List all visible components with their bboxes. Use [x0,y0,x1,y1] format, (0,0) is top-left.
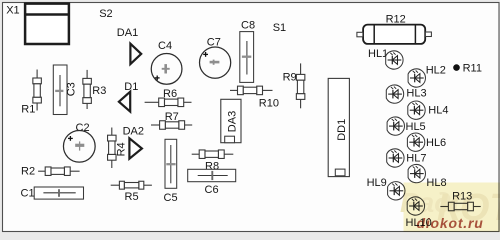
label DD1 [336,119,348,141]
resistor R9 [296,63,305,108]
svg-text:DD1: DD1 [336,119,348,141]
label C3 [65,82,77,96]
label R4 [116,142,128,156]
capacitor C8 [240,32,254,83]
svg-text:C4: C4 [158,40,172,52]
label R9 [283,72,297,84]
LED HL3 [386,85,403,103]
LED HL10 [407,197,424,215]
svg-text:HL2: HL2 [426,64,446,76]
label C7 [207,36,221,48]
optocoupler DA1 [130,44,141,64]
label C4 [158,40,172,52]
capacitor C2 [63,130,95,162]
LED HL7 [387,149,404,167]
svg-text:C6: C6 [205,184,219,196]
op-amp DA3 [221,99,241,142]
svg-text:R6: R6 [163,88,177,100]
svg-text:D1: D1 [124,81,138,93]
resistor R1 [33,70,42,111]
label R12 [386,14,406,26]
label R13 [452,191,472,203]
svg-text:S2: S2 [99,8,112,20]
resistor R5 [111,181,152,189]
capacitor C7 [200,47,231,78]
svg-text:DA2: DA2 [123,125,144,137]
svg-text:R11: R11 [463,62,482,74]
label X1 [6,5,19,17]
svg-text:HL4: HL4 [428,105,448,117]
svg-text:R7: R7 [165,111,179,123]
label C6 [205,184,219,196]
capacitor C4 [151,54,182,85]
LED HL8 [408,164,425,182]
label DA2 [123,125,144,137]
svg-text:R5: R5 [125,191,139,203]
LED HL5 [387,117,404,135]
resistor R8 [192,150,234,159]
svg-text:diokot.ru: diokot.ru [417,215,484,231]
label C5 [164,192,178,204]
label R3 [92,85,106,97]
capacitor C5 [165,139,177,188]
svg-text:R1: R1 [21,104,35,116]
capacitor C3 [53,65,67,115]
label HL5 [406,121,426,133]
resistor R6 [145,98,192,107]
label D1 [124,81,138,93]
svg-text:C3: C3 [65,82,77,96]
LED HL4 [408,101,425,119]
resistor R4 [108,128,117,169]
LED HL2 [408,69,425,87]
label C1 [21,187,35,199]
label C2 [76,122,90,134]
label C8 [241,19,255,31]
svg-text:DA3: DA3 [226,111,238,132]
label R10 [259,97,279,109]
resistor R12 [357,25,432,44]
label DA1 [117,27,138,39]
label R1 [21,104,35,116]
svg-text:DA1: DA1 [117,27,138,39]
svg-text:HL9: HL9 [367,177,387,189]
label R8 [205,161,219,173]
svg-text:R10: R10 [259,97,279,109]
label R5 [125,191,139,203]
diode D1 [119,92,130,112]
optocoupler DA2 [129,138,142,158]
trimmer R11 [453,64,460,71]
label R6 [163,88,177,100]
capacitor C1 [34,187,83,199]
svg-text:R3: R3 [92,85,106,97]
label HL2 [426,64,446,76]
svg-text:HL1: HL1 [368,48,388,60]
IC DD1 [328,78,349,176]
label S2 [99,8,112,20]
svg-text:R2: R2 [21,166,35,178]
resistor R10 [230,86,273,95]
resistor R2 [38,167,80,176]
label HL4 [428,105,448,117]
svg-text:HL5: HL5 [406,121,426,133]
svg-text:S1: S1 [273,22,286,34]
LED HL6 [407,133,424,151]
svg-text:R9: R9 [283,72,297,84]
svg-text:R4: R4 [116,142,128,156]
LED HL1 [386,51,403,69]
svg-text:HL6: HL6 [426,137,446,149]
svg-text:C1: C1 [21,187,35,199]
label R2 [21,166,35,178]
label S1 [273,22,286,34]
capacitor C6 [188,169,236,181]
label HL6 [426,137,446,149]
resistor R13 [440,202,480,211]
label R11 [463,62,482,74]
label HL3 [406,88,426,100]
resistor R7 [151,121,192,130]
svg-text:HL7: HL7 [406,153,426,165]
label HL1 [368,48,388,60]
svg-text:C8: C8 [241,19,255,31]
svg-text:HL3: HL3 [406,88,426,100]
connector X1 [24,4,70,44]
label R7 [165,111,179,123]
LED HL9 [388,182,405,200]
svg-text:C5: C5 [164,192,178,204]
watermark [400,183,500,233]
label HL9 [367,177,387,189]
label HL7 [406,153,426,165]
label DA3 [226,111,238,132]
label HL8 [426,177,446,189]
label HL10 [406,217,432,229]
svg-text:X1: X1 [6,5,19,17]
resistor R3 [83,70,92,109]
